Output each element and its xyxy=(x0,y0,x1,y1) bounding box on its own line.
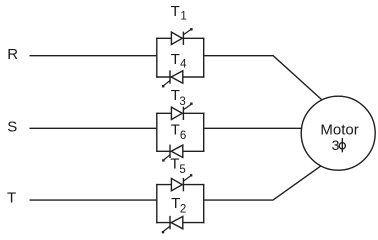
svg-text:T: T xyxy=(171,3,180,20)
svg-text:T: T xyxy=(171,122,180,139)
svg-text:3: 3 xyxy=(179,96,185,108)
svg-text:S: S xyxy=(7,119,17,136)
svg-text:T: T xyxy=(7,189,16,206)
svg-text:1: 1 xyxy=(180,11,186,23)
svg-text:4: 4 xyxy=(180,59,187,71)
svg-text:5: 5 xyxy=(179,164,185,176)
svg-text:3: 3 xyxy=(332,137,340,153)
svg-text:2: 2 xyxy=(180,203,186,215)
svg-text:Motor: Motor xyxy=(320,121,358,138)
svg-text:T: T xyxy=(171,51,180,68)
svg-text:T: T xyxy=(171,195,180,212)
svg-text:6: 6 xyxy=(180,130,186,142)
svg-text:T: T xyxy=(170,156,179,173)
svg-text:R: R xyxy=(7,46,18,63)
